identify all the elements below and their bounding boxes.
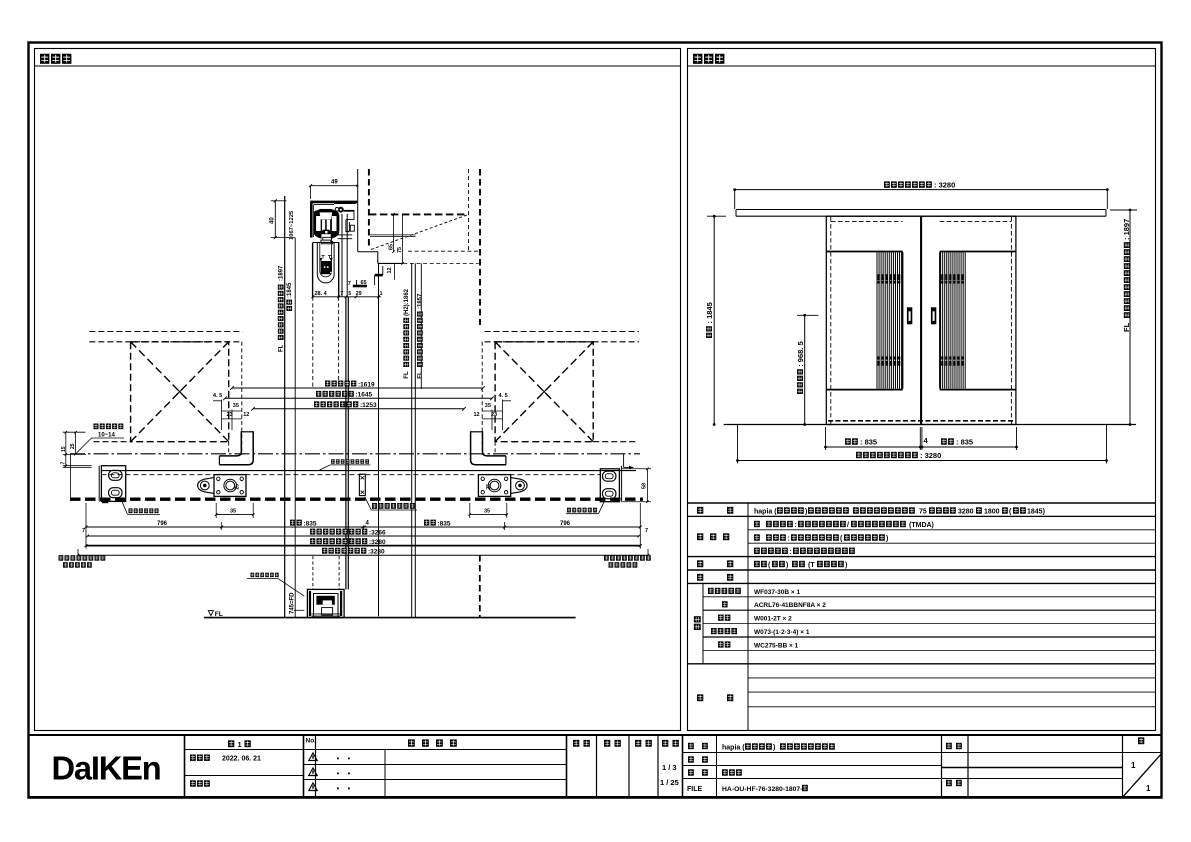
svg-text:1 / 25: 1 / 25 — [660, 778, 679, 787]
svg-text:7: 7 — [340, 291, 343, 297]
dashed verticals beside boxes — [241, 342, 243, 455]
left dim 開高1845 — [713, 216, 715, 424]
DAIKEN logo — [52, 749, 161, 786]
dim line under detail — [313, 296, 381, 298]
extension verticals at ends — [69, 454, 71, 501]
svg-text:3280: 3280 — [958, 509, 974, 516]
svg-text:1067~1225: 1067~1225 — [289, 210, 295, 240]
svg-text::3280: :3280 — [369, 539, 386, 546]
vertical frame member (upper pair) — [341, 214, 343, 297]
centre guide (fure-dome) — [359, 474, 365, 495]
svg-text:1845): 1845) — [1027, 509, 1045, 516]
svg-text:4. 5: 4. 5 — [213, 393, 222, 399]
svg-text:7: 7 — [82, 528, 85, 534]
rev col 第1版 — [185, 749, 304, 751]
right dim FLから吊レールセット上端まで1897 — [1129, 210, 1131, 425]
svg-text:5: 5 — [348, 291, 351, 297]
right bracket steps — [344, 210, 355, 212]
spec rows 仕上げ — [697, 533, 703, 540]
svg-text::1845: :1845 — [287, 282, 293, 298]
svg-text:DaIKEn: DaIKEn — [52, 749, 161, 786]
left dim 40 — [274, 201, 276, 238]
svg-text:35: 35 — [484, 509, 490, 515]
svg-text:7: 7 — [60, 462, 66, 465]
rail mechanism carriage (black mass with white cutouts) — [314, 209, 340, 239]
svg-text:1800: 1800 — [984, 509, 1000, 516]
svg-text:1 / 3: 1 / 3 — [662, 763, 677, 772]
front view: hanging rail bar — [736, 209, 1106, 211]
svg-text::3280: :3280 — [368, 549, 385, 556]
svg-text:HA-OU-HF-76-3280-1807-: HA-OU-HF-76-3280-1807- — [722, 786, 802, 793]
svg-text::1897: :1897 — [278, 265, 284, 281]
top pulley — [338, 207, 344, 213]
right panel title band line — [688, 65, 1156, 67]
svg-text:FL: FL — [418, 371, 424, 379]
svg-text:: 1845: : 1845 — [705, 302, 714, 323]
svg-text:(TMDA): (TMDA) — [909, 522, 934, 529]
cap leader arrow — [623, 454, 625, 468]
svg-text:): ) — [845, 562, 847, 569]
図名 row — [688, 769, 694, 775]
件名 / 部署 labels — [946, 743, 952, 749]
right door-stop L piece — [483, 431, 506, 456]
svg-text:12: 12 — [243, 412, 249, 418]
svg-text:1: 1 — [1131, 761, 1136, 770]
door meeting stiles centre lines — [920, 216, 922, 424]
spec section 備考 — [697, 694, 703, 701]
right panel title 正面図 — [693, 54, 702, 64]
svg-text:: 968. 5: : 968. 5 — [796, 341, 805, 366]
svg-text:: 835: : 835 — [956, 438, 973, 447]
wall finish note left — [94, 424, 99, 430]
svg-text:7: 7 — [348, 281, 351, 287]
svg-text:58: 58 — [642, 483, 648, 489]
FL line — [204, 617, 575, 619]
rail band — [101, 470, 636, 472]
spec table horizontal rules — [688, 502, 1156, 504]
svg-text:): ) — [786, 562, 788, 569]
745=FD rotated dim — [294, 609, 305, 611]
svg-text:): ) — [773, 745, 775, 752]
dashed pocket outline top — [831, 220, 903, 222]
svg-text::: : — [790, 549, 792, 556]
dashed pocket outline bottom (thick) — [828, 420, 1014, 422]
svg-text:2022. 06. 21: 2022. 06. 21 — [222, 756, 261, 763]
left door handle — [907, 307, 912, 324]
bottom dim row2: 下ストッパー外寸法3280 — [738, 460, 1107, 462]
bottom dim stack — [216, 514, 253, 516]
dim 枠FH高968.5 — [804, 315, 806, 424]
adjustment-port note above rail — [331, 459, 335, 463]
svg-text:796: 796 — [560, 521, 571, 527]
svg-text:75: 75 — [397, 247, 403, 253]
page col 頁 — [1138, 737, 1144, 744]
fure-dome label — [372, 503, 377, 509]
left panel title band line — [35, 65, 681, 67]
top horizontal line over carriage — [314, 204, 335, 206]
left door-stop L piece — [219, 431, 241, 456]
svg-text::: : — [788, 536, 790, 543]
small dims 65 75 12 — [393, 214, 395, 251]
svg-text:75: 75 — [919, 509, 927, 516]
svg-text::1857: :1857 — [418, 293, 424, 309]
svg-text:: 3280: : 3280 — [920, 451, 941, 460]
svg-text:/: / — [847, 522, 849, 529]
svg-text:No.: No. — [306, 738, 317, 745]
svg-text:: 1897: : 1897 — [1122, 219, 1131, 240]
svg-text:): ) — [805, 509, 807, 516]
svg-text:35: 35 — [230, 509, 236, 515]
svg-text:745=FD: 745=FD — [289, 592, 295, 614]
left rail end cap — [98, 466, 100, 502]
見積 row — [688, 756, 694, 762]
long verticals — [284, 196, 286, 618]
title block verticals — [184, 735, 186, 797]
svg-text:25: 25 — [70, 443, 76, 449]
centre dash-dot line — [70, 453, 640, 455]
name rows right section — [683, 752, 1123, 754]
svg-text::1253: :1253 — [360, 402, 377, 409]
cross bars — [338, 234, 353, 236]
door mid-panel horizontal rails — [826, 251, 903, 253]
svg-text:(H2):1862: (H2):1862 — [404, 288, 410, 316]
svg-text:28. 4: 28. 4 — [315, 291, 328, 297]
hatch dark bands — [878, 274, 880, 280]
FL marker — [208, 611, 213, 616]
spec section 品番 — [694, 616, 701, 630]
svg-text:): ) — [886, 536, 888, 543]
front view: top dimension line 3280 — [735, 189, 1108, 191]
left wall X-box — [131, 342, 229, 442]
rotated dim texts left — [278, 344, 284, 352]
svg-text:12: 12 — [387, 267, 393, 273]
svg-text:W001-2T × 2: W001-2T × 2 — [754, 616, 792, 623]
svg-text::: : — [795, 522, 797, 529]
svg-text:FL: FL — [278, 344, 284, 352]
svg-text:65: 65 — [389, 244, 395, 250]
svg-text:: 3280: : 3280 — [934, 181, 955, 190]
extra thick right top bar — [334, 202, 356, 204]
pocket bottom thick pieces — [375, 274, 383, 277]
right door handle — [931, 307, 936, 324]
right wall X-box — [495, 342, 593, 442]
svg-text:W073-(1·2·3·4) × 1: W073-(1·2·3·4) × 1 — [754, 629, 810, 636]
svg-text:4. 5: 4. 5 — [499, 393, 508, 399]
svg-text:FILE: FILE — [687, 786, 702, 793]
rotated 1067~1225 — [289, 210, 295, 240]
left door hatched design strip — [876, 252, 878, 388]
columns 承認/確認/作成/縮尺 — [573, 740, 579, 747]
rail end cap notes — [59, 555, 64, 560]
svg-text:1: 1 — [1146, 784, 1151, 793]
right panel frame (shomenzu front view) — [688, 49, 1156, 731]
FL ground line — [724, 424, 1136, 426]
carriage bottom legs gap — [322, 234, 331, 239]
svg-text:(T: (T — [808, 562, 815, 569]
名称 row — [688, 743, 694, 749]
latch black blob — [321, 261, 332, 274]
label 上レール外寸法:3280 — [884, 181, 890, 187]
svg-text:WC275-BB × 1: WC275-BB × 1 — [754, 642, 799, 649]
X-box bottom dashed extensions — [94, 441, 131, 443]
opening dim lines 1619/1645/1253 — [232, 387, 483, 389]
section: verticals above top detail — [357, 169, 359, 252]
svg-text:35: 35 — [233, 403, 239, 409]
svg-text::1645: :1645 — [356, 392, 373, 399]
svg-text:1: 1 — [380, 291, 383, 297]
svg-text:WF037-30B × 1: WF037-30B × 1 — [754, 589, 800, 596]
spec row 要式 — [697, 507, 703, 514]
bottom dim row1: 835 / 4 / 835 — [826, 446, 1017, 448]
axle — [322, 230, 329, 235]
svg-text:ACRL76-41BBNF8A × 2: ACRL76-41BBNF8A × 2 — [754, 602, 826, 609]
wall step lines — [370, 234, 416, 236]
spec table vertical rules — [747, 503, 749, 731]
svg-text::835: :835 — [438, 520, 451, 527]
svg-text:65: 65 — [361, 280, 367, 286]
svg-text:1: 1 — [238, 740, 242, 749]
svg-text:35: 35 — [485, 403, 491, 409]
svg-text:15: 15 — [61, 446, 67, 452]
wall dashed top — [369, 213, 469, 215]
top detail dim 49 — [311, 185, 358, 187]
left guide roller unit — [214, 475, 246, 497]
svg-text:12: 12 — [474, 412, 480, 418]
right guide roller unit — [478, 475, 510, 497]
rail mount thick lines — [310, 201, 357, 204]
white cutouts of carriage — [320, 212, 333, 219]
svg-text:: 835: : 835 — [860, 438, 877, 447]
door top section — [313, 242, 339, 244]
svg-text:FL: FL — [1122, 322, 1131, 332]
small dims far left — [65, 432, 67, 467]
floor stopper section box — [307, 589, 344, 617]
svg-text:796: 796 — [157, 521, 168, 527]
svg-text:FL: FL — [404, 371, 410, 379]
svg-text::1619: :1619 — [358, 381, 375, 388]
svg-text:40: 40 — [269, 217, 275, 224]
svg-text::3266: :3266 — [369, 529, 386, 536]
shita-stopper label left — [129, 508, 133, 513]
left panel frame (dammenzu section view) — [35, 49, 681, 731]
title block bottom border — [29, 796, 1163, 799]
rev history dots — [337, 758, 339, 760]
svg-text:FL: FL — [215, 611, 223, 618]
latch top marks — [322, 256, 332, 259]
right rail end cap — [600, 469, 619, 502]
floor stopper leader label — [251, 573, 255, 577]
shita-stopper label right — [567, 508, 571, 513]
svg-text:49: 49 — [331, 180, 338, 186]
spec row 把手 — [697, 560, 703, 567]
svg-text:25: 25 — [235, 484, 241, 490]
title block top border — [29, 734, 1163, 736]
rotated dim texts mid — [404, 371, 410, 379]
right cap 58 dim — [646, 469, 648, 502]
plan: dashed wall double lines right — [485, 331, 639, 333]
dashed pocket outline verticals — [830, 217, 832, 424]
svg-text:25: 25 — [486, 484, 492, 490]
svg-text:7: 7 — [645, 528, 648, 534]
right door hatched design strip — [940, 252, 942, 388]
right door panel outline — [922, 216, 1016, 424]
svg-text:hapia (: hapia ( — [754, 509, 777, 516]
hanger housing inside door — [317, 243, 334, 283]
left door panel outline — [826, 216, 920, 424]
dashed hidden door edges above stopper — [312, 556, 314, 589]
spec row 錠前 (blank) — [697, 574, 703, 581]
rev history header 改訂履歴 — [408, 739, 415, 746]
plan: dashed wall double lines left — [89, 331, 242, 333]
svg-text::835: :835 — [304, 520, 317, 527]
svg-text:hapia (: hapia ( — [722, 745, 745, 752]
left panel title 断面図 — [40, 54, 49, 64]
